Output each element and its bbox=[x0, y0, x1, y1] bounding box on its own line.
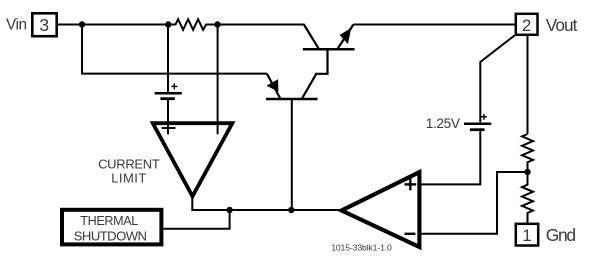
svg-text:3: 3 bbox=[39, 15, 49, 35]
pin box 2 bbox=[516, 14, 538, 35]
svg-text:CURRENT: CURRENT bbox=[98, 157, 160, 172]
battery cell symbol (left reference) bbox=[155, 83, 182, 98]
plus crossbar of current limit input bbox=[162, 127, 176, 129]
node junction dot E (Q2 base drive) bbox=[288, 207, 294, 213]
wire battery to current limit non-inverting input bbox=[167, 100, 169, 134]
wire box2 corner diagonal down to reference bbox=[480, 35, 514, 122]
wire reference to error amp non-inverting input bbox=[421, 131, 480, 185]
svg-text:SHUTDOWN: SHUTDOWN bbox=[74, 228, 147, 243]
op-amp U2 (error amplifier, points left) bbox=[342, 172, 420, 247]
wire thermal shutdown to junction F bbox=[163, 210, 229, 229]
svg-text:Vin: Vin bbox=[6, 17, 27, 34]
node junction dot C (resistor right) bbox=[214, 21, 220, 27]
svg-text:Vout: Vout bbox=[546, 15, 578, 35]
battery reference 1.25V bbox=[464, 114, 491, 130]
box THERMAL SHUTDOWN bbox=[62, 210, 161, 245]
svg-text:1015-33blk1-1.0: 1015-33blk1-1.0 bbox=[331, 243, 392, 253]
resistor R1 (horizontal zigzag on Vin rail) bbox=[168, 19, 217, 30]
pin box 1 bbox=[516, 224, 538, 246]
wire feedback tap to error amp inverting input bbox=[421, 172, 528, 234]
svg-text:LIMIT: LIMIT bbox=[111, 171, 146, 186]
node junction dot B (resistor left) bbox=[165, 21, 171, 27]
wire junction C to transistor Q1 collector bbox=[218, 24, 305, 26]
svg-text:1.25V: 1.25V bbox=[426, 116, 461, 131]
wire box2 bottom down to resistor R2 bbox=[527, 36, 529, 134]
wire junction C down to current limit inverting input bbox=[217, 25, 219, 135]
wire junction A to resistor R1 left junction bbox=[82, 24, 168, 26]
node junction dot F (thermal shutdown tie) bbox=[226, 207, 232, 213]
op-amp U1 CURRENT LIMIT (points down) bbox=[153, 123, 233, 196]
pin box 3 bbox=[32, 13, 56, 36]
wire box3 to first junction bbox=[58, 24, 82, 26]
wire Q2 collector down to junction E bbox=[291, 99, 293, 210]
resistor R3 (lower feedback resistor, vertical) bbox=[522, 172, 533, 223]
resistor R2 (upper feedback resistor, vertical) bbox=[522, 134, 533, 172]
svg-text:Gnd: Gnd bbox=[546, 225, 576, 245]
node junction dot A (Vin rail) bbox=[79, 21, 85, 27]
wire Q1 emitter to box2 (Vout rail) bbox=[353, 24, 514, 26]
transistor Q1 (upper NPN pass transistor) bbox=[303, 25, 355, 50]
svg-text:1: 1 bbox=[522, 226, 531, 245]
label CURRENT LIMIT bbox=[98, 157, 160, 186]
svg-text:2: 2 bbox=[522, 16, 531, 35]
node junction dot D (feedback tap) bbox=[524, 169, 530, 175]
wire error amp output to base drive bus bbox=[291, 209, 341, 211]
transistor Q2 (lower PNP driver) bbox=[266, 49, 328, 99]
wire junction B down to capacitor bbox=[167, 25, 169, 93]
svg-text:THERMAL: THERMAL bbox=[80, 214, 138, 228]
wire bus from current limit apex to junction E bbox=[192, 198, 291, 210]
wire second rail from junction A to Q2 emitter bbox=[82, 25, 267, 74]
